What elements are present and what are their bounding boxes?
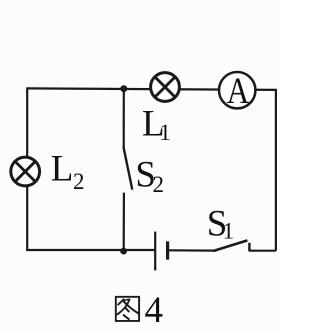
svg-text:2: 2 [153,172,165,197]
svg-text:1: 1 [223,219,235,244]
svg-text:A: A [227,71,250,112]
battery cell (long plate + short thick plate) [155,232,167,271]
node: bottom junction dot [120,248,127,255]
wire: bottom right segment (switch S1 to right corner) [249,250,276,252]
wire: right vertical [275,89,277,251]
wire: middle branch lower (S2 contact down to bottom junction) [123,193,125,251]
wire: top horizontal (left corner to right corner) [27,88,276,90]
node: top junction dot [120,85,127,92]
wire: bottom left segment (corner to battery) [26,249,155,251]
caption: hanzi "tu" (figure) drawn as strokes [116,297,139,321]
svg-text:L: L [51,149,74,190]
svg-text:2: 2 [73,169,85,194]
svg-text:4: 4 [145,290,164,331]
svg-text:1: 1 [159,120,171,145]
switch S1 blade [213,240,247,251]
label S1 [207,203,234,244]
lamp L2 (circle with X) [11,157,40,186]
label L2 [51,149,85,195]
switch S2 blade [124,148,133,190]
lamp L1 (circle with X) [151,73,180,102]
ammeter A [219,71,255,112]
switch S1 contact stub [248,243,250,252]
wire: left vertical [26,87,28,250]
label L1 [142,103,171,145]
wire: bottom middle segment (battery to switch S1) [169,249,214,252]
wire: middle branch upper (top junction down to switch S2) [123,89,125,149]
label S2 [135,154,164,197]
